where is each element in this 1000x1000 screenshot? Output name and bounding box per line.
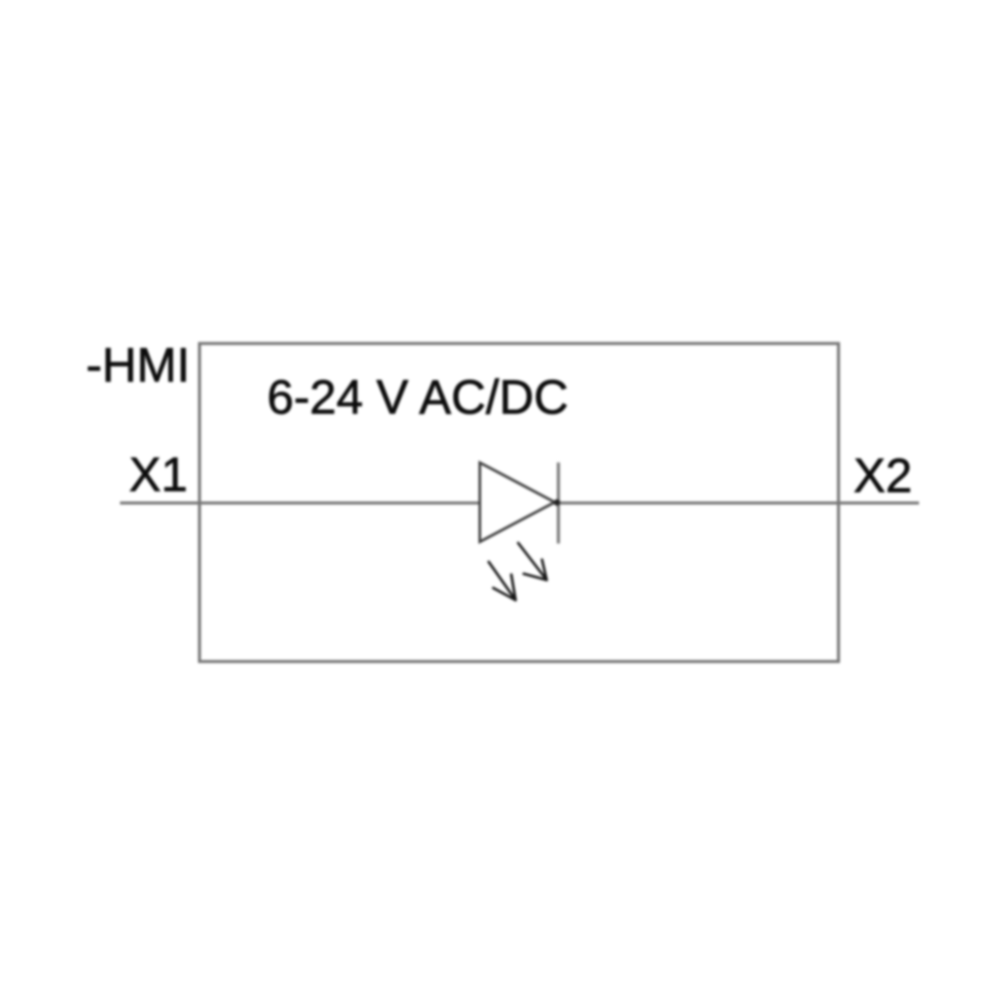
wire X1 to X2 bbox=[120, 502, 919, 505]
enclosure box of device -HMI bbox=[200, 344, 839, 662]
junction dot at cathode bbox=[554, 499, 560, 505]
svg-text:6-24 V AC/DC: 6-24 V AC/DC bbox=[267, 372, 568, 425]
svg-text:X2: X2 bbox=[854, 450, 913, 503]
svg-text:X1: X1 bbox=[129, 449, 188, 502]
LED light emission arrow 1 (upper right) bbox=[518, 543, 547, 580]
svg-text:-HMI: -HMI bbox=[86, 340, 190, 393]
LED light emission arrow 2 (lower left) bbox=[489, 562, 516, 600]
LED diode triangle (anode) bbox=[480, 463, 555, 542]
LED cathode bar bbox=[557, 463, 560, 544]
